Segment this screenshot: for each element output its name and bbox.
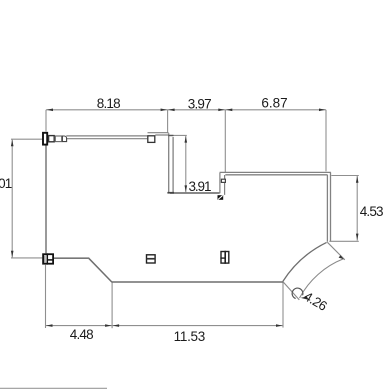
bottom dim extension x=112: [111, 282, 113, 328]
left dim arrows: [11, 140, 14, 146]
top dim extension x=167.6: [167, 110, 169, 133]
3.91 dim line: [185, 136, 187, 193]
window marker bottom-left: [43, 253, 54, 264]
door jamb box 1: [49, 136, 55, 142]
arc-length symbol: [292, 288, 303, 298]
furniture symbol left (divided rect): [147, 255, 156, 263]
svg-text:4.53: 4.53: [360, 204, 383, 219]
top dim arrows: [47, 109, 53, 112]
top dim extension x=225.3: [224, 110, 226, 172]
interior wall top cap: [168, 135, 173, 136]
door flag shape: [62, 136, 66, 142]
4.53 dim line: [356, 176, 358, 241]
bottom wall: [112, 281, 284, 283]
svg-text:3.97: 3.97: [188, 96, 211, 111]
bottom dimension line: [46, 325, 284, 327]
door jamb box 2: [55, 136, 61, 142]
svg-text:4.48: 4.48: [70, 327, 93, 342]
top wall double line left span: [66, 136, 147, 139]
bottom dim extension x=283: [282, 282, 284, 327]
arc dim extension top-right: [327, 242, 345, 260]
curved wall arc: [283, 242, 327, 281]
dimension arc: [300, 259, 344, 298]
interior wall bottom cap: [167, 192, 174, 194]
lower-left wall: [54, 257, 89, 259]
column block top-left: [43, 133, 47, 145]
top dimension line: [46, 109, 326, 111]
top wall double line right span: [148, 133, 169, 135]
4.53 dim arrows: [356, 176, 359, 182]
right wall double line: [327, 172, 330, 241]
corner black marker: [218, 195, 224, 200]
3.91 dim arrows: [185, 136, 188, 142]
4.53 extension top: [331, 175, 359, 177]
wall jog box: [148, 136, 155, 143]
left dimension line: [11, 139, 13, 257]
top dim extension x=326: [325, 110, 327, 172]
top-right wall double line: [220, 172, 331, 174]
corner wall piece verticals: [220, 173, 225, 195]
arc dim extension bottom-left: [283, 282, 299, 300]
diagonal wall: [89, 258, 112, 282]
bottom dim extension x=45.5: [45, 265, 47, 328]
stray bottom line: [0, 387, 107, 389]
4.53 extension bottom: [329, 240, 359, 242]
top dim extension x=46: [45, 110, 47, 132]
svg-text:3.91: 3.91: [189, 179, 211, 194]
left dim extension top: [11, 138, 46, 140]
interior bottom wall: [170, 192, 220, 194]
arc dim arrow bottom: [301, 296, 309, 299]
arc dim arrow top: [339, 255, 344, 259]
furniture symbol right (window detail): [220, 251, 228, 264]
bottom dim arrows: [46, 324, 52, 327]
svg-text:8.01: 8.01: [0, 176, 12, 191]
interior wall vertical double line: [169, 133, 173, 192]
3.91 extension top: [169, 134, 187, 136]
svg-text:11.53: 11.53: [174, 329, 205, 344]
corner small box: [221, 179, 225, 182]
left wall: [45, 145, 47, 253]
svg-text:8.18: 8.18: [97, 96, 120, 111]
left dim extension bottom: [11, 257, 42, 259]
svg-text:6.87: 6.87: [261, 95, 287, 110]
